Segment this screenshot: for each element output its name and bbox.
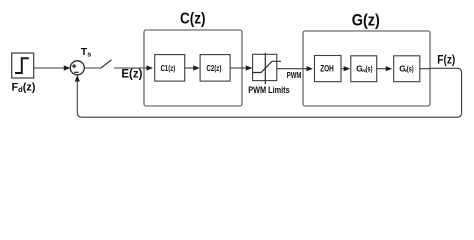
svg-text:(s): (s) [366,64,373,73]
container box G(z) [303,31,430,106]
svg-text:C2(z): C2(z) [206,64,221,73]
block Gv(s) [394,56,420,82]
wire step to summing junction [34,67,65,69]
step source block [12,53,34,78]
wire sampler to C1 [114,67,147,69]
wire Gvd to Gv [377,68,386,70]
arrowhead into summing junction [64,65,71,70]
svg-text:F(z): F(z) [437,55,455,67]
arrowhead into Gv [386,66,393,71]
saturation block PWM limits [253,53,281,84]
svg-text:C(z): C(z) [180,10,206,27]
svg-text:E(z): E(z) [121,66,142,80]
arrowhead into C1 [147,65,154,70]
wire PWM limiter to ZOH [277,68,307,70]
arrowhead into PWM limiter [246,65,253,70]
svg-text:G(z): G(z) [352,11,380,29]
block C1(z) [155,55,185,82]
wire ZOH to Gvd [341,68,344,70]
minus sign [74,71,78,73]
feedback wire [77,68,461,117]
arrowhead into Gvd [344,66,351,71]
wire C2 to PWM limiter [230,67,246,69]
svg-text:PWM: PWM [287,71,302,80]
container box C(z) [144,30,242,106]
summing junction [70,61,84,75]
sampler switch arm [101,60,112,68]
wire summing junction to sampler [84,67,101,69]
block C2(z) [200,55,230,82]
arrowhead into summing junction bottom [75,75,80,82]
wire Gv to output corner [420,68,430,70]
wire C1 to C2 [185,67,194,69]
block ZOH [315,56,342,82]
svg-text:ZOH: ZOH [320,64,334,74]
plus sign [72,64,76,68]
arrowhead into ZOH [307,66,314,71]
block Gvd(s) [351,56,377,82]
arrowhead into C2 [193,65,200,70]
svg-text:PWM Limits: PWM Limits [248,85,290,95]
svg-text:(s): (s) [407,64,414,73]
svg-text:Fd(z): Fd(z) [12,82,36,94]
svg-text:C1(z): C1(z) [161,64,176,73]
